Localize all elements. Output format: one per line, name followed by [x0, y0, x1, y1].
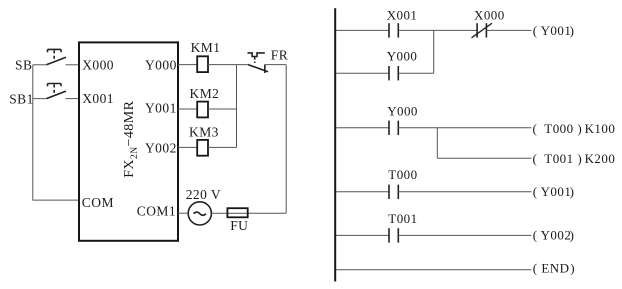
svg-text:T001: T001	[544, 151, 573, 166]
svg-text:): )	[570, 23, 575, 38]
thermal relay contact FR	[248, 53, 269, 73]
wire branch right	[398, 72, 433, 74]
wire SB1 to X001	[66, 98, 79, 100]
svg-text:T000: T000	[544, 121, 573, 136]
svg-text:Y000: Y000	[387, 104, 418, 119]
contact X000 normally closed	[472, 23, 493, 38]
coil Y001 rung1	[533, 23, 575, 38]
svg-text:Y001: Y001	[541, 184, 572, 199]
svg-text:(: (	[533, 121, 538, 136]
wire source to right bus through fuse	[212, 212, 287, 214]
svg-text:(: (	[533, 151, 538, 166]
wire T001 branch horizontal	[437, 157, 531, 159]
svg-text:Y002: Y002	[145, 140, 177, 155]
wire branch left	[336, 72, 389, 74]
coil KM3	[197, 140, 208, 156]
svg-text:): )	[570, 260, 575, 275]
fuse FU	[227, 208, 247, 217]
svg-text:KM1: KM1	[191, 40, 221, 55]
svg-text:Y001: Y001	[145, 101, 177, 116]
coil Y001 rung3	[533, 184, 575, 199]
coil END	[533, 260, 575, 275]
wire rung3 right	[398, 191, 531, 193]
svg-text:SB1: SB1	[9, 91, 34, 106]
svg-text:COM: COM	[82, 195, 114, 210]
contact T000	[389, 185, 398, 199]
svg-text:Y002: Y002	[541, 227, 572, 242]
svg-text:Y000: Y000	[387, 49, 418, 64]
svg-text:): )	[577, 151, 582, 166]
svg-text:FR: FR	[271, 47, 288, 62]
svg-text:220 V: 220 V	[186, 187, 221, 202]
coil T000 K100	[533, 121, 616, 136]
svg-text:X001: X001	[387, 8, 418, 23]
PLC U1 FX2N-48MR box	[79, 42, 178, 240]
wire right bus	[285, 65, 287, 214]
pushbutton SB1	[46, 84, 66, 99]
wire rung3 left	[336, 191, 389, 193]
wire KM2 to bus	[208, 108, 237, 110]
svg-text:(: (	[533, 260, 538, 275]
svg-text:COM1: COM1	[137, 204, 176, 219]
svg-text:Y000: Y000	[145, 58, 177, 73]
wire FR to right bus	[265, 64, 286, 66]
wire branch junction vertical	[433, 30, 435, 73]
svg-text:X000: X000	[82, 58, 114, 73]
wire KM bus vertical	[236, 65, 238, 148]
svg-text:SB: SB	[15, 58, 32, 73]
svg-text:Y001: Y001	[541, 23, 572, 38]
wire rung1 right	[486, 29, 531, 31]
wire rung1 left	[336, 29, 389, 31]
svg-text:): )	[577, 121, 582, 136]
wire rung4 right	[398, 234, 531, 236]
wire rung1 mid	[398, 29, 477, 31]
wire rung4 left	[336, 234, 389, 236]
wire rung2 left	[336, 127, 389, 129]
pushbutton SB	[46, 49, 66, 64]
svg-text:FX2N−48MR: FX2N−48MR	[122, 100, 140, 177]
svg-text:K200: K200	[585, 151, 616, 166]
svg-text:FU: FU	[230, 218, 248, 233]
wire rung2 right	[398, 127, 531, 129]
contact Y000 rung2	[389, 121, 398, 135]
wire T001 branch vertical	[436, 128, 438, 158]
svg-text:X001: X001	[82, 91, 114, 106]
svg-text:X000: X000	[474, 8, 505, 23]
wire rung5	[336, 269, 531, 271]
wire COM1 to source	[178, 212, 188, 214]
wire Y000 to KM1	[178, 64, 197, 66]
wire Y002 to KM3	[178, 146, 197, 148]
contact Y000 parallel	[389, 66, 398, 80]
svg-text:(: (	[533, 227, 538, 242]
left power rail	[334, 8, 336, 281]
wire KM3 to bus	[208, 146, 237, 148]
coil Y002	[533, 227, 575, 242]
coil T001 K200	[533, 151, 616, 166]
svg-text:KM2: KM2	[190, 86, 220, 101]
svg-text:T000: T000	[388, 167, 417, 182]
coil KM2	[197, 102, 208, 118]
contact X001	[389, 23, 398, 37]
wire KM1 to FR	[208, 64, 248, 66]
svg-text:): )	[570, 227, 575, 242]
wire SB to X000	[66, 64, 79, 66]
svg-text:): )	[570, 184, 575, 199]
svg-text:T001: T001	[388, 211, 417, 226]
contact T001	[389, 228, 398, 242]
svg-text:K100: K100	[585, 121, 616, 136]
svg-text:(: (	[533, 23, 538, 38]
wire left bus to COM	[33, 65, 79, 200]
AC source G1	[188, 202, 211, 225]
wire SB left lead	[33, 64, 47, 66]
svg-text:KM3: KM3	[189, 124, 219, 139]
wire SB1 left lead	[33, 98, 47, 100]
wire Y001 to KM2	[178, 108, 197, 110]
svg-text:END: END	[541, 260, 569, 275]
svg-text:(: (	[533, 184, 538, 199]
coil KM1	[197, 56, 208, 72]
